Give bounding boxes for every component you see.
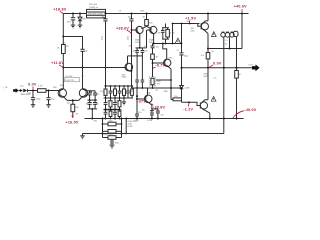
svg-text:-0.7V: -0.7V bbox=[155, 64, 165, 68]
wire coil lead c x236 bbox=[236, 37, 238, 70]
svg-text:0.5: 0.5 bbox=[214, 78, 218, 80]
svg-text:100u: 100u bbox=[67, 22, 72, 24]
svg-text:10u: 10u bbox=[142, 110, 146, 112]
svg-text:0.22u: 0.22u bbox=[134, 120, 140, 122]
red probe +16.5V bbox=[72, 114, 73, 117]
node G (tail) bbox=[72, 99, 74, 101]
svg-text:1845: 1845 bbox=[122, 77, 127, 79]
warning triangle 1 bbox=[175, 38, 181, 44]
wire cluster row3 bus bbox=[104, 109, 122, 111]
red annotations bbox=[28, 5, 257, 125]
svg-text:100u: 100u bbox=[115, 143, 120, 145]
svg-text:+1.5V: +1.5V bbox=[185, 17, 196, 21]
node label 0.0V output bbox=[209, 61, 222, 67]
svg-text:0.0V: 0.0V bbox=[28, 83, 37, 87]
svg-text:1K: 1K bbox=[143, 16, 146, 18]
svg-text:-1.2V: -1.2V bbox=[183, 107, 193, 111]
wire VAS base y67 bbox=[63, 67, 125, 69]
wire x207.5 emitter down bbox=[207, 34, 209, 53]
svg-text:+40.0V: +40.0V bbox=[234, 5, 247, 9]
wire comp join y55.4 bbox=[128, 55, 143, 57]
capacitor C14 (cluster r1c6) bbox=[126, 86, 130, 98]
node label -0.7V bbox=[153, 64, 166, 69]
ground (D1) bbox=[78, 25, 83, 28]
wire x207.5 collector stub bbox=[207, 14, 209, 21]
svg-text:1K: 1K bbox=[76, 114, 79, 116]
resistor R1 (top pair upper) bbox=[87, 9, 106, 16]
capacitor C13 (cluster r1c4) bbox=[118, 86, 122, 98]
resistor R4 (input series) bbox=[38, 89, 47, 93]
resistor R16 (upper emitter) bbox=[206, 53, 210, 68]
svg-text:+38.6V: +38.6V bbox=[116, 26, 129, 30]
svg-text:2SC1775: 2SC1775 bbox=[65, 80, 75, 82]
transistor Q1 (input pair left) bbox=[58, 89, 67, 101]
transistor Q5 (VAS) bbox=[125, 63, 133, 71]
node A (+18.8V junction) bbox=[72, 13, 81, 15]
wire x136.5 down from mid bus bbox=[136, 88, 138, 112]
label box dual transistor bbox=[65, 78, 80, 82]
svg-text:560: 560 bbox=[94, 120, 98, 122]
transistor Q7 (bias servo) bbox=[163, 44, 171, 69]
wire left dropper x63 bbox=[62, 14, 64, 45]
wire cluster stems to bottom bus bbox=[105, 108, 107, 111]
svg-text:10p: 10p bbox=[51, 99, 55, 101]
transistor Q8 (upper driver) bbox=[198, 21, 209, 34]
capacitor C30 (cluster r3c1) bbox=[104, 110, 108, 119]
wire cluster mid bus y97.5 bbox=[104, 97, 134, 99]
svg-text:47p: 47p bbox=[129, 46, 133, 48]
node label +40.0V bbox=[234, 5, 247, 14]
svg-text:1K: 1K bbox=[66, 46, 69, 48]
wire ground return bus y133 bbox=[83, 133, 224, 135]
wire right loop x223.3 bbox=[223, 119, 225, 134]
wire fb stem to bottom bus bbox=[91, 109, 93, 119]
wire mid bus y87.5 bbox=[132, 87, 182, 89]
svg-text:10u: 10u bbox=[96, 94, 100, 96]
diode D2 (on x181) bbox=[180, 86, 184, 89]
svg-text:100p: 100p bbox=[102, 35, 104, 40]
wire mirror left collector bbox=[139, 34, 141, 48]
svg-text:R21: R21 bbox=[141, 11, 146, 13]
wire NFB right vert x121 bbox=[121, 119, 123, 138]
node label 0.0V input bbox=[28, 83, 37, 90]
svg-text:10u: 10u bbox=[161, 115, 165, 117]
transistor Q9 (lower driver) bbox=[200, 100, 210, 113]
node D (x82 y67) bbox=[82, 67, 84, 69]
svg-text:Q1 2SC: Q1 2SC bbox=[65, 76, 73, 78]
transistor Q3 (mirror left) bbox=[132, 26, 144, 33]
node label -37.4V bbox=[137, 99, 146, 103]
svg-text:+: + bbox=[69, 17, 71, 19]
capacitor C16 (cluster r2c3) bbox=[113, 98, 117, 109]
tiny grey component labels bbox=[3, 4, 254, 144]
svg-text:I_IN: I_IN bbox=[3, 87, 8, 89]
capacitor C23 (x142 col mid) bbox=[135, 56, 144, 88]
svg-text:4.7K: 4.7K bbox=[170, 33, 175, 35]
svg-text:2SA: 2SA bbox=[147, 92, 152, 95]
wire fb mid bbox=[87, 99, 97, 101]
svg-text:100p: 100p bbox=[128, 35, 130, 40]
capacitor C31 (cluster r3c3) bbox=[113, 110, 117, 119]
wire x181 down (VAS output column) bbox=[181, 24, 183, 53]
svg-text:x2: x2 bbox=[82, 76, 85, 78]
wire mirror right collector bbox=[153, 34, 155, 44]
wire coil lead b x228 bbox=[229, 37, 231, 48]
wire output line y67.3 bbox=[182, 67, 253, 69]
svg-text:22u: 22u bbox=[138, 112, 142, 114]
svg-text:0.5: 0.5 bbox=[201, 55, 205, 57]
node label +1.5V bbox=[185, 17, 196, 24]
capacitor C19 (NFB shunt) bbox=[110, 139, 114, 145]
wire main top rail y=13 x105-248 bbox=[106, 13, 249, 15]
svg-text:-38.8V: -38.8V bbox=[153, 106, 166, 110]
ground (NFB) bbox=[110, 145, 115, 148]
warning triangle 2 bbox=[211, 32, 216, 37]
wire VAS collector bbox=[127, 56, 129, 64]
wire branch y36 to x82 bbox=[63, 37, 82, 50]
capacitor C4 (x82) bbox=[80, 49, 84, 89]
svg-text:10p: 10p bbox=[144, 46, 148, 48]
ground (C7) bbox=[46, 105, 51, 108]
svg-text:0.22u: 0.22u bbox=[147, 120, 153, 122]
wire lower driver emitter bbox=[209, 113, 211, 118]
resistor R19 (zobel) bbox=[235, 71, 239, 79]
capacitor C5 (input coupling, dark) bbox=[20, 89, 28, 92]
node C (x63 y36) bbox=[62, 36, 64, 69]
resistor R15 (x167 parallel pair) bbox=[162, 28, 169, 44]
transistor Q6 (lower VAS) bbox=[137, 88, 152, 105]
capacitor C20 (comp a) bbox=[135, 47, 146, 56]
capacitor C18 (x151 above bottom bus) bbox=[150, 111, 154, 118]
resistor R12 (NFB lower shunt) bbox=[103, 136, 122, 140]
svg-text:100p: 100p bbox=[36, 99, 41, 101]
transistor Q4 (mirror right) bbox=[147, 26, 157, 33]
svg-text:+16.5V: +16.5V bbox=[66, 120, 79, 124]
svg-text:1K: 1K bbox=[156, 90, 159, 92]
svg-text:+18.8V: +18.8V bbox=[53, 8, 66, 12]
resistor R22 (cluster r3c2) bbox=[109, 110, 112, 119]
capacitor C1 (supply filter electrolytic) bbox=[71, 14, 75, 26]
svg-text:2SB: 2SB bbox=[164, 91, 169, 93]
resistor R9 (cluster r2c2) bbox=[109, 98, 112, 109]
capacitor C25 (under Q6 b) bbox=[152, 108, 160, 119]
svg-text:OUT: OUT bbox=[249, 65, 254, 67]
capacitor C9 (fb right col row1) bbox=[93, 91, 97, 100]
svg-text:1845: 1845 bbox=[60, 85, 65, 87]
resistor R14 (vbe col box) bbox=[151, 54, 155, 77]
svg-text:47u: 47u bbox=[144, 51, 148, 53]
resistor R6 (cluster r1c1) bbox=[104, 86, 107, 98]
node label +16.5V bbox=[66, 120, 79, 124]
ground (return bus left end) bbox=[80, 134, 85, 139]
svg-text:1K: 1K bbox=[96, 104, 99, 106]
node E (input node) bbox=[32, 90, 34, 92]
svg-text:18V: 18V bbox=[82, 19, 86, 21]
wire mirror base drop bbox=[146, 30, 148, 48]
svg-text:(1/4W) x2: (1/4W) x2 bbox=[89, 7, 99, 9]
svg-text:4148: 4148 bbox=[185, 87, 190, 89]
resistor R3 (dropper) bbox=[62, 45, 66, 54]
svg-text:0.0V: 0.0V bbox=[213, 61, 222, 65]
svg-text:R15 50K: R15 50K bbox=[89, 4, 98, 6]
resistor R13 (mirror emitter feed) bbox=[141, 14, 151, 29]
wire x207.5 to lower driver bbox=[207, 68, 209, 100]
inductor L1 (output coil loops) bbox=[221, 31, 238, 37]
svg-text:C7: C7 bbox=[177, 50, 181, 52]
svg-text:150: 150 bbox=[75, 107, 79, 109]
ground (cluster mid) bbox=[122, 98, 126, 105]
wire mid rail y43 bbox=[153, 43, 182, 45]
wire fb bottom bbox=[87, 108, 97, 110]
capacitor C24 (under Q6 a) bbox=[150, 105, 154, 111]
capacitor C11 (fb right col row2) bbox=[93, 100, 97, 109]
warning triangle 3 bbox=[211, 96, 216, 101]
capacitor C12 (cluster r1c2) bbox=[109, 86, 113, 98]
transistor Q2 (input pair right) bbox=[79, 89, 91, 101]
wire x172 down bbox=[172, 24, 174, 44]
wire cluster low bus y108.8 bbox=[104, 108, 120, 110]
capacitor C3 (rail decoupling x131) bbox=[129, 14, 133, 21]
ground (C6) bbox=[31, 105, 36, 108]
wire VAS emitter x131 bbox=[131, 71, 133, 89]
svg-text:10: 10 bbox=[212, 51, 215, 53]
node label +38.6V bbox=[116, 26, 131, 33]
svg-text:100p: 100p bbox=[184, 56, 189, 58]
svg-text:VR: VR bbox=[157, 84, 160, 86]
wire bias emitter x170.5 bbox=[170, 69, 172, 100]
resistor R8 (cluster r1c5) bbox=[123, 86, 126, 98]
output port arrow bbox=[252, 64, 260, 71]
svg-text:10: 10 bbox=[239, 74, 242, 76]
svg-text:1N4148x2: 1N4148x2 bbox=[21, 94, 31, 96]
wire vbe base tap bbox=[153, 62, 164, 64]
resistor R18 (NFB mid) bbox=[103, 130, 122, 134]
node label -40.0V bbox=[233, 108, 257, 118]
svg-text:3u: 3u bbox=[225, 44, 228, 46]
svg-text:0.5W: 0.5W bbox=[128, 126, 133, 128]
resistor R23 (cluster r3c4) bbox=[118, 110, 121, 119]
svg-text:2SC: 2SC bbox=[191, 31, 196, 33]
wire feedback to Q2 base bbox=[90, 91, 92, 93]
svg-text:-37V: -37V bbox=[137, 99, 146, 103]
resistor R11 (NFB upper) bbox=[103, 122, 122, 126]
wire input bbox=[19, 90, 20, 92]
node label +18.8V bbox=[53, 8, 66, 14]
wire NFB vert x125.7 bbox=[125, 119, 127, 134]
wire rail drop x241.5 bbox=[241, 14, 243, 49]
node B (rail node x105) bbox=[105, 13, 244, 15]
wire mirror base line x131 down bbox=[131, 21, 133, 71]
capacitor C6 (input shunt x32.5) bbox=[31, 91, 35, 105]
capacitor C10 (fb left col row2) bbox=[88, 100, 92, 109]
capacitor C8 (fb left col row1) bbox=[88, 91, 92, 100]
capacitor C26 (vbe col top) bbox=[151, 44, 155, 55]
wire cluster top bus y85.5 bbox=[106, 85, 134, 87]
svg-text:+: + bbox=[153, 112, 155, 114]
wire y48 rail bbox=[208, 48, 242, 50]
svg-text:4.7K: 4.7K bbox=[38, 86, 43, 88]
svg-text:1K: 1K bbox=[57, 48, 60, 50]
diode D1 (zener to ground) bbox=[78, 14, 82, 26]
capacitor C17 (x136.5 under cluster top) bbox=[135, 112, 139, 119]
wire compensation x105 down bbox=[105, 21, 107, 86]
capacitor C27 (x162.8 parallel pair) bbox=[161, 24, 169, 40]
capacitor C15 (cluster r2c1) bbox=[104, 98, 108, 109]
svg-text:R30: R30 bbox=[187, 21, 192, 23]
ground (C1) bbox=[71, 25, 76, 28]
resistor R10 (cluster r2c4) bbox=[118, 98, 121, 109]
svg-text:10p: 10p bbox=[84, 51, 88, 53]
node label +11.8V bbox=[51, 61, 64, 67]
capacitor C2 (rail decoupling x105) bbox=[103, 14, 107, 21]
wire coil lead a x223.3 bbox=[223, 37, 225, 118]
svg-text:+11.8V: +11.8V bbox=[51, 61, 64, 65]
resistor R17 (lower base) bbox=[173, 98, 182, 101]
capacitor C28 (on x181) bbox=[180, 53, 184, 55]
capacitor C22 (x136.5 col mid) bbox=[136, 56, 138, 80]
svg-text:150: 150 bbox=[67, 103, 71, 105]
resistor R24 (cluster r1c7) bbox=[131, 86, 134, 98]
wire upper base wire y23 bbox=[173, 23, 200, 25]
resistor R7 (cluster r1c3) bbox=[114, 86, 117, 98]
wire top-left supply rail y=13 bbox=[63, 13, 86, 15]
input port I_IN bbox=[13, 88, 19, 93]
node F bbox=[48, 90, 50, 92]
wire lower base y101.8 bbox=[182, 101, 201, 105]
svg-text:10u: 10u bbox=[20, 86, 24, 88]
svg-text:L1: L1 bbox=[226, 40, 229, 42]
svg-text:C9: C9 bbox=[119, 11, 123, 13]
wire long bottom bus y117.5 bbox=[85, 118, 244, 120]
wire NFB left vert x102 bbox=[102, 119, 104, 138]
svg-text:2SC: 2SC bbox=[53, 87, 58, 89]
resistor R5 (tail) bbox=[71, 100, 75, 117]
node label -38.8V bbox=[152, 104, 166, 110]
svg-text:1K: 1K bbox=[156, 57, 159, 59]
wire tail join bbox=[67, 99, 79, 101]
svg-text:-40.0V: -40.0V bbox=[244, 108, 257, 112]
node label -1.1V bbox=[183, 103, 193, 111]
svg-text:2SC: 2SC bbox=[169, 58, 174, 60]
svg-text:47u: 47u bbox=[156, 47, 160, 49]
potentiometer VR1 (trimmer) bbox=[149, 77, 171, 88]
svg-text:NFB: NFB bbox=[104, 134, 109, 136]
capacitor C7 (input shunt x48) bbox=[46, 91, 50, 105]
capacitor C21 (comp b) bbox=[141, 48, 145, 56]
svg-text:390: 390 bbox=[149, 22, 153, 24]
resistor R2 (top pair lower) bbox=[87, 15, 106, 18]
